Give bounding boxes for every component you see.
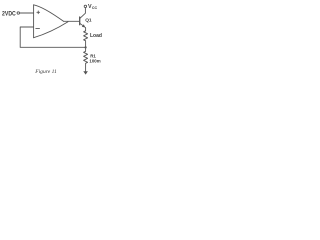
svg-text:Figure 11: Figure 11	[34, 69, 57, 75]
svg-text:Q1: Q1	[85, 18, 92, 24]
svg-text:Load: Load	[90, 33, 102, 39]
svg-text:CC: CC	[92, 6, 98, 10]
svg-text:100m: 100m	[89, 58, 100, 63]
svg-text:2VDC: 2VDC	[2, 11, 16, 17]
